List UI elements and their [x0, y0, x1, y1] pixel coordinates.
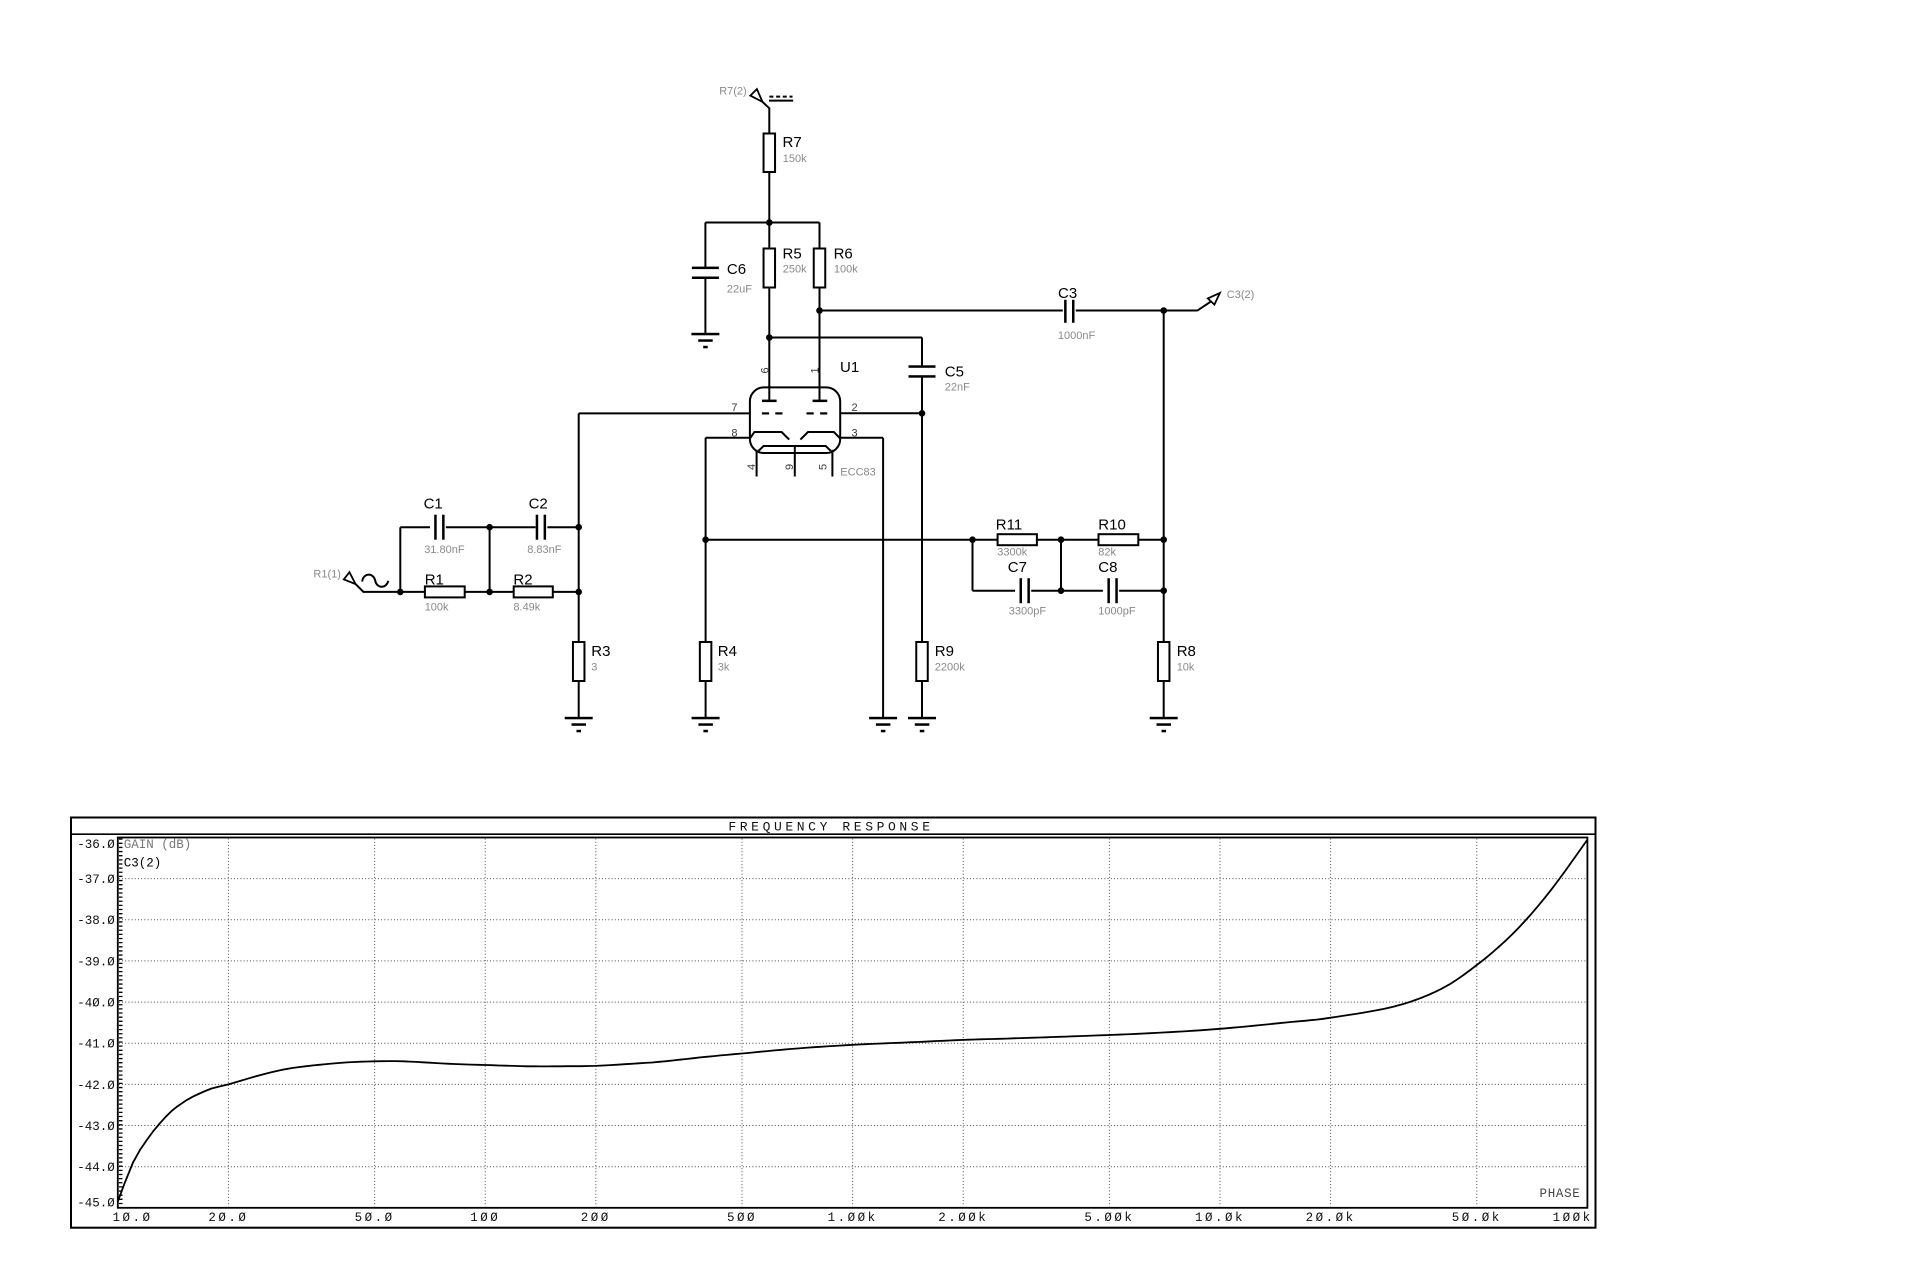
svg-text:5Ø.Ø: 5Ø.Ø: [355, 1211, 395, 1225]
svg-text:5: 5: [818, 464, 830, 470]
label R4: [718, 643, 737, 660]
wire: [579, 413, 750, 642]
svg-text:250k: 250k: [783, 264, 807, 276]
ground: [1150, 717, 1178, 733]
label C8: [1098, 559, 1117, 576]
resistor R6: [814, 249, 826, 288]
svg-text:1000nF: 1000nF: [1058, 330, 1096, 342]
wire: [704, 223, 706, 268]
resistor R10: [1099, 534, 1139, 545]
svg-text:C1: C1: [424, 496, 443, 513]
pin 2 number: [852, 402, 858, 414]
value 1000pF: [1098, 606, 1136, 618]
label R10: [1098, 516, 1126, 533]
capacitor C3: [1064, 300, 1074, 323]
label R5: [783, 245, 802, 262]
cathode triode B: [800, 432, 840, 440]
svg-text:100k: 100k: [834, 264, 858, 276]
pin 5 lead: [831, 450, 833, 477]
junction: [969, 536, 976, 543]
junction: [1160, 536, 1167, 543]
pin 5 number: [818, 464, 830, 470]
svg-text:5ØØ: 5ØØ: [727, 1211, 757, 1225]
wire: [363, 591, 425, 593]
label U1: [840, 359, 859, 376]
label R7: [783, 134, 802, 151]
wire: [820, 310, 1063, 312]
svg-text:5Ø.Øk: 5Ø.Øk: [1452, 1211, 1502, 1225]
value 100k: [425, 602, 449, 614]
label R9: [935, 643, 954, 660]
svg-text:22nF: 22nF: [945, 382, 970, 394]
svg-text:1ØØ: 1ØØ: [470, 1211, 500, 1225]
svg-text:1Ø.Ø: 1Ø.Ø: [112, 1211, 152, 1225]
svg-text:C3(2): C3(2): [124, 856, 162, 870]
label R6: [834, 245, 853, 262]
label C5: [945, 364, 964, 381]
junction: [702, 536, 709, 543]
label R3: [591, 643, 610, 660]
svg-text:1ØØk: 1ØØk: [1553, 1211, 1593, 1225]
svg-text:R8: R8: [1177, 643, 1196, 660]
ground: [908, 717, 936, 733]
svg-text:-4Ø.Ø: -4Ø.Ø: [77, 997, 115, 1011]
svg-text:2ØØ: 2ØØ: [581, 1211, 611, 1225]
svg-text:-39.Ø: -39.Ø: [77, 955, 115, 969]
junction: [1058, 536, 1065, 543]
svg-text:R5: R5: [783, 245, 802, 262]
wire: [840, 438, 883, 718]
resistor R3: [573, 642, 585, 681]
svg-text:31.80nF: 31.80nF: [424, 544, 465, 556]
wire: [768, 108, 770, 135]
svg-text:R4: R4: [718, 643, 737, 660]
wire: [921, 378, 923, 414]
svg-text:R3: R3: [591, 643, 610, 660]
svg-text:ECC83: ECC83: [840, 466, 875, 478]
svg-text:-42.Ø: -42.Ø: [77, 1079, 115, 1093]
value 82k: [1098, 547, 1116, 559]
x-axis labels: [112, 1211, 1592, 1225]
pin 1 number: [810, 367, 822, 373]
svg-text:2200k: 2200k: [935, 661, 965, 673]
anode bar pin 1: [813, 386, 828, 402]
response curve GAIN(dB) of C3(2): [118, 840, 1588, 1202]
svg-text:GAIN (dB): GAIN (dB): [124, 838, 192, 852]
svg-text:R7(2): R7(2): [719, 86, 747, 98]
svg-text:-41.Ø: -41.Ø: [77, 1038, 115, 1052]
svg-text:9: 9: [784, 464, 796, 470]
resistor R11: [998, 534, 1037, 545]
vertical gridlines: [228, 839, 1476, 1207]
wire: [1076, 310, 1197, 312]
legend C3(2): [124, 856, 162, 870]
wire: [768, 172, 770, 223]
ground: [691, 333, 719, 349]
svg-text:C6: C6: [727, 261, 746, 278]
svg-text:4: 4: [746, 464, 758, 470]
capacitor C7: [1020, 578, 1030, 603]
wire: [553, 591, 579, 593]
wire: [768, 223, 770, 249]
value 22uF: [727, 283, 752, 295]
wire: [921, 413, 923, 642]
resistor R8: [1158, 642, 1170, 681]
cathode triode A: [750, 432, 789, 440]
svg-text:R1: R1: [425, 571, 444, 588]
svg-text:3: 3: [591, 661, 597, 673]
svg-text:C5: C5: [945, 364, 964, 381]
wire: [1060, 540, 1062, 591]
svg-text:-45.Ø: -45.Ø: [77, 1196, 115, 1210]
svg-text:82k: 82k: [1098, 547, 1116, 559]
pin 9 number: [784, 464, 796, 470]
svg-text:R9: R9: [935, 643, 954, 660]
y-axis labels: [77, 838, 115, 1210]
junction: [919, 410, 926, 417]
value 100k: [834, 264, 858, 276]
svg-text:8.49k: 8.49k: [513, 602, 540, 614]
value 8.83nF: [527, 544, 562, 556]
wire: [973, 540, 1016, 591]
svg-text:C7: C7: [1008, 559, 1027, 576]
svg-text:1: 1: [810, 367, 822, 373]
heater filament: [759, 446, 831, 451]
wire: [769, 338, 922, 367]
label R8: [1177, 643, 1196, 660]
svg-text:FREQUENCY RESPONSE: FREQUENCY RESPONSE: [728, 819, 933, 834]
label R11: [996, 516, 1022, 533]
resistor R5: [764, 249, 776, 288]
capacitor C1: [434, 515, 444, 540]
value 10k: [1177, 661, 1195, 673]
junction: [397, 589, 404, 596]
value 3300k: [997, 547, 1027, 559]
ground: [692, 717, 720, 733]
value ECC83: [840, 466, 875, 478]
wire: [921, 681, 923, 718]
wire: [704, 279, 706, 335]
svg-text:100k: 100k: [425, 602, 449, 614]
wire: [1037, 539, 1099, 541]
wire: [705, 681, 707, 718]
svg-text:3300pF: 3300pF: [1009, 606, 1047, 618]
wire: [1031, 590, 1103, 592]
pin 3 number: [852, 428, 858, 440]
wire: [706, 539, 998, 541]
label C1: [424, 496, 443, 513]
value 3300pF: [1009, 606, 1047, 618]
junction: [816, 307, 823, 314]
terminal R7(2) off-page port: [750, 89, 793, 108]
value 250k: [783, 264, 807, 276]
svg-text:R1(1): R1(1): [313, 568, 341, 580]
label C3(2): [1227, 289, 1255, 301]
wire: [840, 412, 922, 414]
svg-text:5.ØØk: 5.ØØk: [1084, 1211, 1134, 1225]
label C3: [1058, 285, 1077, 302]
junction: [766, 219, 773, 226]
junction: [575, 524, 582, 531]
resistor R7: [764, 134, 776, 173]
value 3k: [718, 661, 730, 673]
value 3: [591, 661, 597, 673]
svg-text:-37.Ø: -37.Ø: [77, 873, 115, 887]
label R2: [513, 571, 532, 588]
label PHASE: [1540, 1187, 1581, 1201]
pin 7 number: [731, 402, 737, 414]
value 22nF: [945, 382, 970, 394]
svg-text:-38.Ø: -38.Ø: [77, 914, 115, 928]
svg-text:R6: R6: [834, 245, 853, 262]
svg-text:C3: C3: [1058, 285, 1077, 302]
svg-text:C2: C2: [529, 496, 548, 513]
label C2: [529, 496, 548, 513]
svg-text:3k: 3k: [718, 661, 730, 673]
svg-text:2Ø.Ø: 2Ø.Ø: [208, 1211, 248, 1225]
y-axis minor ticks: [119, 839, 123, 1208]
wire: [705, 222, 819, 224]
capacitor C2: [536, 515, 546, 540]
wire: [819, 288, 821, 402]
svg-text:-36.Ø: -36.Ø: [77, 838, 115, 852]
pin 9 lead: [794, 446, 796, 477]
svg-text:1Ø.Øk: 1Ø.Øk: [1195, 1211, 1245, 1225]
wire: [465, 591, 514, 593]
grid dashes triode A: [762, 412, 783, 414]
svg-text:PHASE: PHASE: [1540, 1187, 1581, 1201]
wire: [489, 527, 491, 592]
svg-text:1.ØØk: 1.ØØk: [828, 1211, 878, 1225]
label R7(2): [719, 86, 747, 98]
wire: [1163, 311, 1165, 643]
wire: [547, 526, 578, 528]
svg-text:6: 6: [759, 367, 771, 373]
chart outer frame: [71, 818, 1596, 1228]
svg-text:22uF: 22uF: [727, 283, 752, 295]
svg-text:C8: C8: [1098, 559, 1117, 576]
value 2200k: [935, 661, 965, 673]
anode bar pin 6: [762, 386, 777, 402]
svg-text:-43.Ø: -43.Ø: [77, 1120, 115, 1134]
resistor R2: [514, 586, 553, 597]
svg-text:-44.Ø: -44.Ø: [77, 1161, 115, 1175]
plot frame: [118, 838, 1588, 1208]
svg-text:R7: R7: [783, 134, 802, 151]
svg-text:2.ØØk: 2.ØØk: [938, 1211, 988, 1225]
junction: [486, 589, 493, 596]
chart title: [728, 819, 933, 834]
wire: [400, 527, 430, 592]
wire: [768, 288, 770, 402]
capacitor C6: [692, 267, 719, 279]
resistor R4: [700, 642, 712, 681]
label C6: [727, 261, 746, 278]
legend GAIN (dB): [124, 838, 192, 852]
svg-text:U1: U1: [840, 359, 859, 376]
tube U1 ECC83 envelope: [750, 387, 840, 453]
svg-text:R11: R11: [996, 516, 1022, 533]
svg-text:8.83nF: 8.83nF: [527, 544, 562, 556]
resistor R1: [425, 586, 465, 597]
svg-text:150k: 150k: [783, 153, 807, 165]
pin 4 lead: [756, 450, 758, 477]
wire: [1163, 681, 1165, 718]
svg-text:C3(2): C3(2): [1227, 289, 1255, 301]
wire: [446, 526, 536, 528]
svg-text:R2: R2: [513, 571, 532, 588]
wire: [1119, 590, 1164, 592]
svg-text:10k: 10k: [1177, 661, 1195, 673]
junction: [486, 524, 493, 531]
svg-text:7: 7: [731, 402, 737, 414]
label C7: [1008, 559, 1027, 576]
wire: [706, 438, 750, 642]
svg-text:R10: R10: [1098, 516, 1126, 533]
capacitor C5: [909, 365, 936, 377]
ground: [565, 717, 593, 733]
junction: [1058, 587, 1065, 594]
value 1000nF: [1058, 330, 1096, 342]
pin 4 number: [746, 464, 758, 470]
junction: [766, 334, 773, 341]
svg-text:2Ø.Øk: 2Ø.Øk: [1306, 1211, 1356, 1225]
terminal R1(1) source: [344, 572, 388, 592]
terminal C3(2) off-page port: [1197, 293, 1220, 311]
svg-text:2: 2: [852, 402, 858, 414]
value 8.49k: [513, 602, 540, 614]
pin 6 number: [759, 367, 771, 373]
pin 8 number: [731, 428, 737, 440]
resistor R9: [916, 642, 928, 681]
junction: [575, 589, 582, 596]
wire: [1138, 539, 1163, 541]
label R1(1): [313, 568, 341, 580]
svg-text:1000pF: 1000pF: [1098, 606, 1136, 618]
value 31.80nF: [424, 544, 465, 556]
wire: [819, 223, 821, 249]
svg-text:3300k: 3300k: [997, 547, 1027, 559]
value 150k: [783, 153, 807, 165]
horizontal gridlines: [119, 879, 1587, 1167]
ground: [869, 717, 897, 733]
wire: [578, 681, 580, 718]
junction: [1160, 307, 1167, 314]
label R1: [425, 571, 444, 588]
junction: [1160, 587, 1167, 594]
grid dashes triode B: [807, 412, 828, 414]
chart title underline: [71, 833, 1596, 835]
capacitor C8: [1107, 578, 1117, 603]
